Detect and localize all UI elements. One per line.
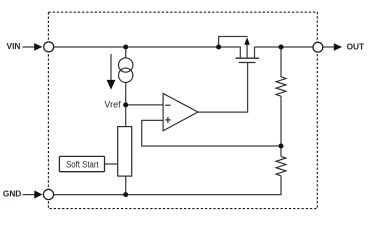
svg-text:VIN: VIN [7,41,21,51]
svg-text:GND: GND [3,189,21,199]
svg-text:Soft Start: Soft Start [66,159,99,170]
svg-text:OUT: OUT [347,41,365,51]
svg-text:Vref: Vref [104,99,121,109]
